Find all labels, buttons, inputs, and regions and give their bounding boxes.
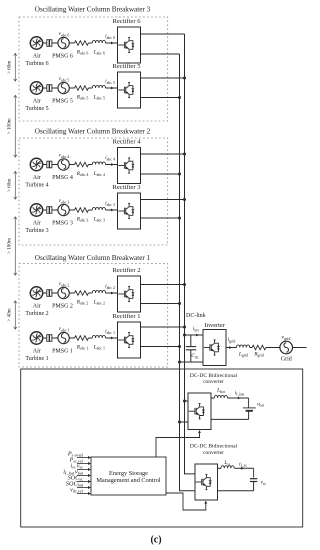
- svg-text:PMSG 5: PMSG 5: [52, 99, 73, 105]
- junction on DC+ bus (rectifier 5): [183, 77, 186, 80]
- DC-DC converter 1 box: [188, 393, 211, 430]
- svg-text:Rectifier 2: Rectifier 2: [112, 267, 140, 274]
- PMSG 6 (AC machine symbol): [58, 37, 69, 48]
- shaft coupling between turbine 2 and PMSG 2: [43, 290, 58, 297]
- PMSG 4 (AC machine symbol): [58, 159, 69, 170]
- air turbine 6 (fan icon): [30, 37, 42, 49]
- shaft coupling between turbine 4 and PMSG 4: [43, 161, 58, 168]
- control input v_dc,ref: [70, 486, 91, 495]
- svg-text:Turbine 1: Turbine 1: [25, 356, 48, 362]
- control signal into converter 2 (gate): [166, 493, 207, 510]
- svg-text:PMSG 3: PMSG 3: [52, 221, 73, 227]
- wire with current arrow i_abc 6 into rectifier 6: [89, 42, 118, 45]
- control input i_sc v_sc: [70, 462, 91, 471]
- PMSG 1 (AC machine symbol): [58, 332, 69, 343]
- wire rectifier 2 DC+ output to outer bus: [141, 284, 185, 286]
- control input SOC_sc: [68, 474, 91, 483]
- wire with current arrow i_abc 3 into rectifier 3: [89, 209, 118, 212]
- IGBT symbol inside rectifier 5: [118, 82, 134, 98]
- junction on DC- bus (rectifier 5): [178, 96, 181, 99]
- resistor R_abc 3: [75, 208, 89, 213]
- shaft coupling between turbine 1 and PMSG 1: [43, 335, 58, 342]
- wire converter 1 top output: [211, 397, 214, 399]
- junction DC+ bus to inverter rail: [183, 334, 186, 337]
- svg-text:Rectifier 5: Rectifier 5: [112, 63, 141, 70]
- svg-text:Energy Storage: Energy Storage: [109, 470, 148, 477]
- rectifier 4 box: [118, 148, 141, 184]
- wire PMSG 4 to stator resistance: [69, 164, 74, 166]
- rectifier 3 box: [118, 193, 141, 229]
- grid AC source circle: [280, 341, 293, 354]
- wire inverter output with arrow i_grid: [226, 346, 237, 349]
- PMSG 5 (AC machine symbol): [58, 82, 69, 93]
- dimension arrow: > 100m (breakwater 2 to 1): [14, 217, 17, 276]
- IGBT symbol inside rectifier 3: [118, 203, 134, 219]
- wire with arrow i_L,sc to supercapacitor: [234, 467, 253, 478]
- wire rectifier 5 DC- output to inner bus: [141, 97, 180, 99]
- control input SOC_bat: [66, 480, 91, 489]
- svg-text:Air: Air: [33, 221, 41, 227]
- inductor L_abc 6: [92, 40, 105, 43]
- svg-text:Oscillating Water Column Break: Oscillating Water Column Breakwater 2: [35, 127, 151, 135]
- air turbine 3 (fan icon): [30, 204, 42, 216]
- svg-text:> 60m: > 60m: [7, 179, 13, 192]
- dashed enclosure: breakwater 2: [19, 138, 168, 245]
- svg-text:Air: Air: [33, 304, 41, 310]
- DC+ bus (outer vertical) from rectifier 6 down to DC-DC converter 2 input: [185, 34, 196, 474]
- air turbine 4 (fan icon): [30, 158, 42, 170]
- IGBT symbol inside rectifier 4: [118, 158, 134, 174]
- svg-text:Grid: Grid: [281, 357, 292, 363]
- svg-text:Rectifier 6: Rectifier 6: [112, 18, 141, 25]
- resistor R_abc 4: [75, 162, 89, 167]
- label DC-DC Bidirectional converter (supercapacitor): [190, 444, 238, 457]
- wire with current arrow i_abc 2 into rectifier 2: [89, 292, 118, 295]
- wire with current arrow i_abc 1 into rectifier 1: [89, 337, 118, 340]
- wire grid source to edge: [293, 347, 307, 349]
- dimension arrow: > 100m (breakwater 3 to 2): [14, 95, 17, 158]
- svg-text:Air: Air: [33, 99, 41, 105]
- junction on DC+ bus (rectifier 1): [183, 326, 186, 329]
- wire PMSG 2 to stator resistance: [69, 292, 74, 294]
- svg-text:Inverter: Inverter: [205, 322, 226, 329]
- control input P_sc,ref: [69, 456, 91, 465]
- svg-text:> 60m: > 60m: [7, 61, 13, 74]
- svg-text:Turbine 4: Turbine 4: [25, 182, 48, 188]
- wire rectifier 3 DC+ output to outer bus: [141, 199, 185, 201]
- dimension arrow: > 60m (turbine 6 to 5): [14, 53, 17, 82]
- shaft coupling between turbine 6 and PMSG 6: [43, 40, 58, 47]
- svg-text:PMSG 6: PMSG 6: [52, 54, 73, 60]
- dashed enclosure: breakwater 1: [19, 264, 168, 368]
- junction on DC+ bus (rectifier 2): [183, 283, 186, 286]
- battery v_bat symbol: [243, 408, 256, 420]
- inductor L_sc: [221, 466, 234, 469]
- svg-text:PMSG 2: PMSG 2: [52, 304, 73, 310]
- Energy Storage Management and Control box: [91, 457, 166, 495]
- inverter box: [203, 330, 226, 366]
- svg-text:Air: Air: [33, 175, 41, 181]
- svg-text:> 40m: > 40m: [7, 308, 13, 321]
- IGBT symbol inside rectifier 6: [118, 37, 134, 53]
- wire with current arrow i_abc 4 into rectifier 4: [89, 163, 118, 166]
- wire PMSG 5 to stator resistance: [69, 87, 74, 89]
- svg-text:PMSG 4: PMSG 4: [52, 175, 73, 181]
- wire DC+ bus to converter 1 upper input: [185, 400, 189, 402]
- junction on DC- bus (rectifier 3): [178, 217, 181, 220]
- wire rectifier 4 DC- output to inner bus: [141, 173, 180, 175]
- PMSG 3 (AC machine symbol): [58, 204, 69, 215]
- junction on DC+ bus (rectifier 4): [183, 153, 186, 156]
- wire DC+ rail into inverter with arrow: [185, 334, 204, 337]
- svg-text:> 100m: > 100m: [7, 118, 13, 134]
- control signal into converter 1 (gate): [156, 430, 201, 457]
- wire rectifier 5 DC+ output to outer bus: [141, 77, 185, 79]
- svg-text:Rectifier 4: Rectifier 4: [112, 139, 141, 146]
- control input i_L,bat v_bat: [63, 468, 91, 477]
- svg-text:Management and Control: Management and Control: [96, 477, 161, 484]
- svg-text:DC-link: DC-link: [186, 313, 206, 319]
- IGBT symbol inside rectifier 2: [118, 286, 134, 302]
- svg-text:> 100m: > 100m: [7, 238, 13, 254]
- resistor R_abc 5: [75, 86, 89, 91]
- air turbine 5 (fan icon): [30, 82, 42, 94]
- wire DC- bus to converter 1 lower input: [180, 421, 189, 423]
- junction on DC- bus (rectifier 4): [178, 173, 181, 176]
- IGBT symbol inside rectifier 1: [118, 332, 134, 348]
- svg-text:Turbine 2: Turbine 2: [25, 311, 48, 317]
- DC-DC converter 2 box: [195, 464, 218, 500]
- DC- bus (inner vertical) from rectifier 6 down to DC-DC converter 2 input: [180, 54, 196, 491]
- supercapacitor v_sc symbol: [250, 479, 257, 491]
- air turbine 2 (fan icon): [30, 287, 42, 299]
- resistor R_grid: [252, 345, 266, 350]
- svg-text:Air: Air: [33, 54, 41, 60]
- rectifier 1 box: [118, 322, 141, 358]
- IGBT symbol inside converter 2: [196, 474, 212, 490]
- wire supercapacitor return to converter 2: [218, 490, 254, 492]
- wire R_grid to grid source: [266, 347, 280, 349]
- IGBT symbol inside inverter: [204, 340, 220, 356]
- inductor L_abc 1: [92, 335, 105, 338]
- junction DC- bus to inverter rail: [178, 361, 181, 364]
- IGBT symbol inside converter 1: [189, 403, 205, 419]
- inductor L_bat: [214, 395, 227, 398]
- svg-text:converter: converter: [203, 379, 224, 385]
- svg-text:Turbine 5: Turbine 5: [25, 106, 48, 112]
- svg-text:Turbine 3: Turbine 3: [25, 228, 48, 234]
- junction DC+ bus to converter 1: [183, 400, 186, 403]
- dashed enclosure: breakwater 3: [19, 17, 168, 121]
- svg-text:Oscillating Water Column Break: Oscillating Water Column Breakwater 3: [35, 6, 151, 14]
- PMSG 2 (AC machine symbol): [58, 287, 69, 298]
- capacitor C_dc across DC link: [186, 335, 196, 362]
- inductor L_abc 4: [92, 162, 105, 165]
- svg-text:Rectifier 3: Rectifier 3: [112, 184, 141, 191]
- wire PMSG 6 to stator resistance: [69, 42, 74, 44]
- outer solid enclosure of storage section: [21, 369, 303, 527]
- wire rectifier 6 DC- output to inner bus: [141, 53, 180, 55]
- air turbine 1 (fan icon): [30, 332, 42, 344]
- resistor R_abc 6: [75, 41, 89, 46]
- wire converter 2 top output: [218, 467, 222, 469]
- svg-text:converter: converter: [203, 450, 224, 456]
- wire rectifier 1 DC- output to inner bus: [141, 346, 180, 348]
- wire PMSG 3 to stator resistance: [69, 209, 74, 211]
- control input P_s,avail: [67, 450, 91, 459]
- wire rectifier 2 DC- output to inner bus: [141, 303, 180, 305]
- svg-text:PMSG 1: PMSG 1: [52, 349, 73, 355]
- inductor L_abc 2: [92, 290, 105, 293]
- svg-text:Oscillating Water Column Break: Oscillating Water Column Breakwater 1: [35, 254, 151, 262]
- svg-text:Turbine 6: Turbine 6: [25, 61, 48, 67]
- wire between L_grid and R_grid: [250, 347, 252, 349]
- svg-text:Rectifier 1: Rectifier 1: [112, 313, 140, 320]
- inductor L_grid: [237, 345, 250, 348]
- inductor L_abc 5: [92, 85, 105, 88]
- svg-text:DC-DC Bidirectional: DC-DC Bidirectional: [190, 444, 238, 450]
- junction on DC- bus (rectifier 1): [178, 345, 181, 348]
- svg-text:(c): (c): [150, 535, 161, 546]
- dimension arrow: > 60m (turbine 4 to 3): [14, 171, 17, 200]
- wire with arrow i_L,bat to battery: [228, 397, 249, 408]
- inductor L_abc 3: [92, 207, 105, 210]
- wire battery return to converter 1: [211, 418, 249, 420]
- wire rectifier 4 DC+ output to outer bus: [141, 153, 185, 155]
- label DC-DC Bidirectional converter (battery): [190, 373, 238, 385]
- wire DC- rail into inverter: [180, 361, 204, 363]
- resistor R_abc 2: [75, 291, 89, 296]
- wire with current arrow i_abc 5 into rectifier 5: [89, 87, 118, 90]
- rectifier 5 box: [118, 72, 141, 108]
- dimension arrow: > 40m (turbine 2 to 1): [14, 301, 17, 330]
- resistor R_abc 1: [75, 336, 89, 341]
- rectifier 2 box: [118, 276, 141, 312]
- junction on DC- bus (rectifier 2): [178, 302, 181, 305]
- wire rectifier 1 DC+ output to outer bus: [141, 326, 185, 328]
- wire rectifier 3 DC- output to inner bus: [141, 217, 180, 219]
- junction on DC+ bus (rectifier 3): [183, 198, 186, 201]
- rectifier 6 box: [118, 27, 141, 63]
- shaft coupling between turbine 5 and PMSG 5: [43, 85, 58, 92]
- wire PMSG 1 to stator resistance: [69, 337, 74, 339]
- wire rectifier 6 DC+ output to outer bus: [141, 33, 185, 35]
- shaft coupling between turbine 3 and PMSG 3: [43, 207, 58, 214]
- svg-text:Air: Air: [33, 349, 41, 355]
- junction DC- bus to converter 1: [178, 421, 181, 424]
